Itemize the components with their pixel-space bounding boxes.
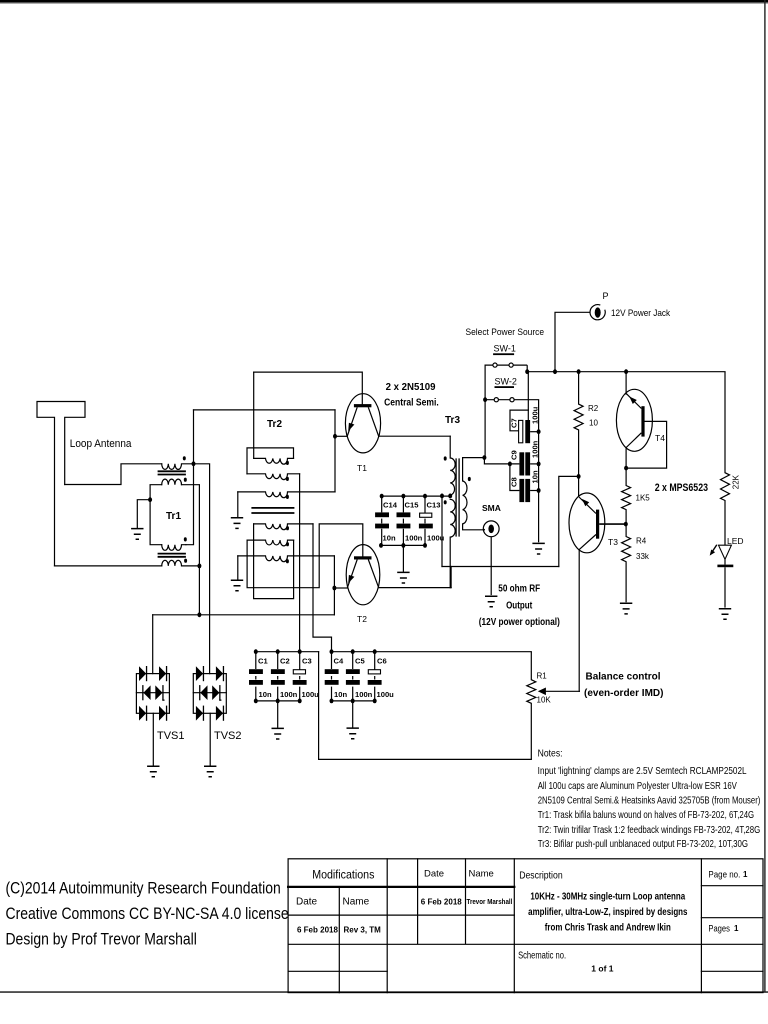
svg-text:22K: 22K (732, 474, 741, 489)
dot Tr2 W1 polarity (286, 461, 289, 465)
capacitor C1 (249, 652, 272, 701)
svg-text:2 x 2N5109: 2 x 2N5109 (386, 382, 436, 393)
junction dot rail T4 (624, 369, 628, 374)
svg-text:1: 1 (734, 924, 739, 933)
T3 emitter arrow (582, 499, 589, 506)
title block table (288, 859, 763, 993)
wire C4-C6 bottom rail (332, 700, 375, 702)
wire jack to power rail (555, 312, 590, 371)
T4 collector leg (626, 433, 641, 448)
wire W2/W4 node down to bottom rail (198, 566, 200, 615)
T4 emitter leg (626, 394, 641, 409)
wire C-block rail to Tr3 center (382, 495, 451, 497)
svg-text:12V Power Jack: 12V Power Jack (611, 308, 671, 318)
svg-text:100u: 100u (377, 690, 395, 699)
transistor T3 (rotated) (569, 493, 626, 691)
wire C2 ground tap (277, 701, 279, 727)
wire C7 feed box (510, 410, 528, 431)
svg-text:C4: C4 (334, 657, 344, 666)
R1 wiper arrow line (545, 690, 580, 692)
svg-text:T3: T3 (608, 537, 618, 547)
table thick header line (288, 886, 514, 888)
resistor R2 (574, 372, 583, 477)
wire R2 node to output line (559, 476, 579, 566)
capacitor C9 (horizontal) (484, 440, 539, 475)
junction dot T1 base (333, 434, 337, 439)
svg-text:SMA: SMA (482, 503, 501, 513)
wire W6 left down to ground (237, 556, 239, 579)
svg-text:Tr3: Tr3 (445, 415, 460, 426)
junction dot Tr3 C top / SW riser (482, 455, 486, 460)
ground C7/C9/C8 (532, 543, 544, 554)
svg-text:100n: 100n (280, 690, 298, 699)
T3 collector leg (579, 535, 596, 550)
svg-text:Tr2: Tr2 (267, 419, 282, 430)
dot Tr1 W1 polarity (183, 456, 186, 460)
junction dot T4 collector node (624, 466, 628, 471)
capacitor C7 (polarized, horizontal) (510, 406, 540, 443)
ground C2 (272, 728, 284, 739)
wire RF output line (442, 566, 559, 568)
TVS array TVS1 (136, 666, 169, 765)
wire Tr3 B bottom junction vertical (450, 567, 452, 588)
junction dot C5 top (351, 649, 355, 654)
capacitor C2 (271, 652, 298, 701)
wire top rail y=410 (194, 409, 336, 411)
transistor T1 (254, 372, 451, 453)
T2 emitter leg (347, 560, 357, 588)
T2 emitter arrow (348, 575, 354, 584)
TVS array TVS2 (193, 666, 226, 765)
capacitor C5 (346, 652, 373, 701)
junction dot C3 bottom (298, 699, 302, 704)
svg-text:10: 10 (589, 419, 598, 428)
svg-text:Loop Antenna: Loop Antenna (70, 438, 132, 451)
svg-text:(12V power optional): (12V power optional) (479, 616, 560, 627)
Tr2 winding W4 (humps down) (254, 524, 313, 530)
junction dot R2 bottom (577, 474, 581, 479)
ground LED (719, 609, 731, 620)
svg-text:C2: C2 (280, 657, 290, 666)
resistor 1K5 (622, 468, 631, 524)
dot Tr3 winding B polarity (444, 500, 447, 504)
junction dot T2 emitter (332, 586, 336, 591)
dot Tr3 winding A polarity (444, 456, 447, 460)
svg-text:Notes:: Notes: (538, 748, 563, 759)
junction dot C4 bottom (330, 699, 334, 704)
connector SMA (482, 503, 501, 595)
junction dot C14 bottom (379, 543, 383, 548)
loop antenna symbol (T outline) (37, 402, 85, 566)
Tr1 winding W2 (humps up) (162, 479, 182, 485)
wire C9 right lead (530, 463, 539, 465)
potentiometer R1 (527, 652, 580, 760)
dot Tr2 W2 polarity (286, 477, 289, 481)
T1 emitter arrow (348, 423, 354, 432)
transistor T2 (334, 545, 451, 605)
power jack P (590, 291, 608, 320)
wire node A up to top rail (193, 410, 195, 464)
wire R2 node down to T3 (578, 476, 580, 496)
junction dot C1 top (254, 649, 258, 654)
junction dot C7 right (537, 429, 541, 434)
T1 base bar (354, 404, 372, 407)
junction dot C9 left branch (508, 462, 512, 467)
svg-text:from Chris Trask and Andrew Ik: from Chris Trask and Andrew Ikin (545, 922, 671, 933)
junction dot C14 top (380, 494, 384, 499)
svg-text:6 Feb 2018: 6 Feb 2018 (421, 898, 462, 907)
transformer Tr1 (137, 464, 199, 566)
dot Tr2 W5 polarity (286, 542, 289, 546)
Tr2 winding W6 (humps down) (238, 556, 335, 562)
svg-text:C14: C14 (383, 501, 398, 510)
svg-text:100n: 100n (355, 690, 373, 699)
ground SMA output (485, 596, 497, 607)
svg-text:Design by Prof Trevor Marshall: Design by Prof Trevor Marshall (6, 931, 197, 949)
Tr2 winding W2 (humps down) (247, 474, 300, 480)
dot Tr3 winding C polarity (468, 477, 471, 481)
junction dot C2 bottom (276, 699, 280, 704)
R1 wiper arrowhead (538, 688, 546, 696)
T4 emitter arrow (629, 397, 637, 405)
junction dot Tr3 A/B center to C-rail (448, 494, 452, 499)
junction dot C-rail branch (440, 494, 444, 499)
junction dot C15 bottom (401, 543, 405, 548)
Tr3 winding A (vertical, humps right) (450, 436, 455, 495)
dot Tr1 W4 polarity (184, 559, 187, 563)
wire antenna upper lead to Tr1 W1 (65, 464, 162, 485)
wire W2-right long drop to C3 (299, 474, 301, 652)
Tr1 core lines upper (159, 471, 186, 474)
capacitor C3 (polarized) (293, 652, 319, 701)
svg-text:Central Semi.: Central Semi. (384, 397, 439, 409)
wire bottom rail y=615 (153, 614, 335, 616)
TVS1 mid-right diode (155, 685, 162, 700)
Tr1 box right vertical (node A) (186, 464, 194, 545)
Tr2 winding W3 (humps down) (238, 492, 335, 498)
svg-text:R1: R1 (537, 672, 548, 681)
wire rail drop to C7 (527, 372, 529, 421)
svg-text:10n: 10n (259, 690, 272, 699)
TVS1 top-right diode (159, 666, 166, 681)
junction dot T3 base node (624, 522, 628, 527)
T1 collector wire to Tr3 (379, 435, 451, 437)
svg-text:Tr2: Twin trifilar Trask 1:2 f: Tr2: Twin trifilar Trask 1:2 feedback wi… (538, 824, 761, 835)
Tr1 W2 left lead + box left vertical to W3 (150, 485, 162, 545)
TVS1 top-left diode (139, 666, 146, 681)
svg-text:2N5109 Central Semi.& Heatsink: 2N5109 Central Semi.& Heatsinks Aavid 32… (538, 794, 761, 805)
wire antenna lower lead to Tr1 W4 (55, 565, 162, 567)
svg-text:100n: 100n (405, 534, 423, 543)
svg-text:Pages: Pages (708, 923, 730, 934)
Tr1 winding W3 (humps down) (162, 545, 186, 551)
junction dot SW-2 left (483, 397, 487, 402)
resistor 22K (721, 372, 730, 546)
notes text block (538, 748, 761, 849)
svg-text:C1: C1 (258, 657, 268, 666)
T2 emitter wire (334, 587, 347, 589)
junction dot C13 top (423, 494, 427, 499)
svg-text:2 x MPS6523: 2 x MPS6523 (655, 482, 709, 494)
svg-text:33k: 33k (636, 552, 650, 561)
LED D1 (710, 536, 744, 608)
Tr1 W2 right lead (182, 485, 200, 566)
svg-text:10K: 10K (537, 696, 552, 705)
svg-text:Name: Name (343, 897, 370, 908)
junction dot C6 top (373, 649, 377, 654)
wire C8 left lead (510, 464, 520, 491)
junction dot C3 top (298, 649, 302, 654)
wire W4-right drop to C4 (313, 524, 332, 652)
svg-text:C8: C8 (510, 477, 519, 487)
T3 base wire (599, 523, 626, 525)
switch SW-2 (485, 377, 538, 543)
wire C14-bank bottom rail (381, 544, 425, 546)
svg-text:C5: C5 (355, 657, 365, 666)
svg-text:1K5: 1K5 (636, 494, 651, 503)
junction dot rail jack (553, 369, 557, 374)
ground TVS1 (147, 766, 159, 777)
transformer Tr2 (238, 372, 363, 652)
svg-text:Modifications: Modifications (312, 869, 375, 882)
svg-text:SW-1: SW-1 (494, 344, 516, 354)
wire C5 ground tap (352, 701, 354, 727)
wire power rail (527, 371, 725, 373)
capacitor C6 (polarized) (368, 652, 394, 701)
svg-text:6 Feb 2018: 6 Feb 2018 (297, 926, 338, 935)
svg-text:R4: R4 (636, 537, 647, 546)
T2 body ellipse (346, 545, 380, 605)
T1 collector leg (368, 407, 378, 436)
ground Tr2 W6 (231, 580, 243, 591)
T3 emitter leg (579, 497, 596, 514)
wire C1-C3 bottom rail (256, 700, 300, 702)
Tr1 winding W1 (top primary, humps down) (162, 464, 194, 470)
T2 base bar (354, 556, 372, 559)
T1 collector top feedback wire to Tr2 (254, 372, 363, 404)
wire C15 ground tap (402, 545, 404, 571)
svg-text:50 ohm RF: 50 ohm RF (498, 583, 540, 594)
svg-text:100u: 100u (427, 534, 445, 543)
dot Tr1 W3 polarity (184, 537, 187, 541)
junction dot rail R2 (577, 369, 581, 374)
Tr2 wrap W4-left to W5-right (254, 524, 294, 599)
transistor T4 (rotated) (616, 372, 666, 468)
resistor R4 (622, 524, 631, 602)
table vertical dividers (339, 859, 701, 993)
wire SMA ground lead (490, 537, 492, 595)
dot Tr2 W4 polarity (286, 526, 289, 530)
Tr2 winding W1 (humps down) (254, 458, 294, 464)
svg-text:Rev 3, TM: Rev 3, TM (344, 926, 382, 935)
svg-text:T1: T1 (357, 463, 367, 473)
svg-text:Output: Output (506, 600, 532, 611)
wire Tr3 C bottom to SMA (483, 529, 484, 530)
T4 base bar (641, 406, 644, 436)
TVS1 mid-left diode (points left) (143, 685, 150, 700)
wire C-rail branch down to output line (441, 496, 443, 567)
svg-text:T4: T4 (655, 433, 665, 443)
capacitor C8 (horizontal) (510, 464, 540, 502)
svg-text:TVS2: TVS2 (214, 730, 242, 742)
svg-text:100u: 100u (531, 406, 540, 424)
junction dot Tr1 ground tap (148, 497, 152, 502)
ground TVS2 (204, 766, 216, 777)
wire Tr2 W3-right up to T1 base (vertical) (334, 410, 336, 492)
junction dot W2/W4 node on bottom rail (197, 612, 201, 617)
T3 emitter/collector vertical wires (578, 550, 580, 692)
Tr2 wrap W1-right to W2-left (247, 448, 294, 474)
page border bottom (0, 991, 768, 993)
junction dot C15 top (401, 494, 405, 499)
svg-text:(even-order IMD): (even-order IMD) (584, 688, 663, 699)
junction node A dot (192, 461, 196, 466)
svg-text:C6: C6 (377, 657, 387, 666)
TVS1 bottom-right diode (159, 706, 166, 721)
table row lines (288, 886, 763, 972)
wire T1 feedback vertical into Tr2 W1 left (253, 372, 255, 458)
capacitor C15 (397, 496, 423, 545)
svg-text:100u: 100u (302, 690, 320, 699)
svg-text:Schematic no.: Schematic no. (518, 949, 566, 960)
Tr3 winding C (vertical, humps right) (463, 458, 485, 530)
wire W6-right down to T2 emitter node and bottom rail (333, 556, 335, 615)
T2 collector leg (368, 560, 378, 588)
ground Tr1 center tap (131, 529, 143, 540)
svg-text:10n: 10n (334, 690, 347, 699)
wire R1 bottom loop to C1-C3 rail (319, 652, 532, 760)
wire C7 right lead (530, 431, 539, 433)
Tr3 core lines (vertical) (456, 459, 459, 536)
wire W3 left down to ground (237, 492, 239, 517)
switch SW-1 (485, 344, 527, 372)
T4 base loop wire (626, 421, 667, 468)
ground R4 (620, 603, 632, 614)
junction dot W2/W4 node (197, 564, 201, 569)
LED arrow (712, 545, 717, 552)
page border top bar (0, 0, 768, 3)
wire C9 left lead from Tr3 (484, 458, 519, 464)
svg-text:Trevor Marshall: Trevor Marshall (467, 899, 513, 906)
svg-text:LED: LED (727, 536, 744, 546)
wire W5-left to T2 base feed (247, 524, 363, 588)
T4 collector wire down (625, 448, 627, 468)
svg-text:(C)2014 Autoimmunity Research: (C)2014 Autoimmunity Research Foundation (5, 880, 280, 898)
svg-text:All 100u caps are Aluminum Pol: All 100u caps are Aluminum Polyester Ult… (538, 780, 737, 791)
svg-text:Date: Date (296, 897, 318, 908)
page border right (764, 0, 765, 992)
junction dot rail SW (525, 369, 529, 374)
svg-text:Tr1: Tr1 (166, 511, 181, 522)
capacitor C13 (polarized) (419, 496, 445, 545)
svg-text:C15: C15 (405, 501, 420, 510)
junction dot C8 right (537, 488, 541, 493)
svg-text:C7: C7 (510, 418, 519, 428)
Tr3 winding C top lead (463, 457, 485, 459)
svg-text:10n: 10n (383, 534, 396, 543)
TVS1 bottom-left diode (139, 706, 146, 721)
junction dot C5 bottom (351, 699, 355, 704)
svg-text:10n: 10n (531, 470, 540, 483)
junction dot C1 bottom (254, 699, 258, 704)
svg-text:T2: T2 (357, 614, 367, 624)
svg-text:10KHz - 30MHz single-turn Loop: 10KHz - 30MHz single-turn Loop antenna (530, 891, 686, 902)
junction dot C13 bottom (423, 543, 427, 548)
junction dot C4 top (330, 649, 334, 654)
T1 emitter wire (335, 435, 347, 437)
dot Tr2 W3 polarity (286, 495, 289, 499)
table outer box (288, 859, 763, 993)
svg-text:SW-2: SW-2 (495, 377, 517, 387)
T1 emitter leg (347, 407, 357, 436)
wire C4-C6 top rail to R1 (332, 651, 532, 653)
copyright text block (5, 880, 288, 949)
Tr1 center-tap ground wire (137, 500, 150, 528)
svg-text:Select Power Source: Select Power Source (466, 327, 545, 338)
Tr2 core lines (252, 508, 293, 513)
svg-text:R2: R2 (588, 404, 599, 413)
dot Tr2 W6 polarity (286, 559, 289, 563)
ground C15 (397, 572, 409, 583)
Tr1 winding W4 (humps up) (162, 560, 200, 566)
svg-text:Tr3: Bifilar push-pull unblana: Tr3: Bifilar push-pull unblanaced output… (538, 838, 748, 849)
svg-text:Input 'lightning' clamps are 2: Input 'lightning' clamps are 2.5V Semtec… (538, 765, 747, 776)
svg-text:1: 1 (743, 870, 748, 879)
wire TVS1 riser (152, 615, 154, 674)
dot Tr1 W2 polarity (184, 478, 187, 482)
capacitor C14 (375, 496, 398, 545)
ground Tr2 W3 (231, 518, 243, 529)
ground C5 (347, 728, 359, 739)
transformer Tr3 (450, 436, 484, 587)
Tr2 winding W5 (humps down) (247, 540, 294, 546)
svg-text:C3: C3 (302, 657, 312, 666)
wire C1-C3 top rail (256, 651, 319, 653)
svg-text:TVS1: TVS1 (157, 730, 185, 742)
svg-text:amplifier, ultra-Low-Z, inspir: amplifier, ultra-Low-Z, inspired by desi… (528, 906, 687, 917)
svg-text:Creative Commons CC BY-NC-SA 4: Creative Commons CC BY-NC-SA 4.0 license (6, 905, 289, 923)
T2 collector wire (379, 587, 451, 589)
svg-text:Name: Name (469, 869, 494, 880)
svg-text:Date: Date (424, 869, 444, 880)
svg-text:C13: C13 (427, 501, 441, 510)
svg-text:Page no.: Page no. (708, 869, 740, 880)
T4 emitter wire from rail (625, 372, 627, 394)
wire node A right and down to TVS2 (194, 464, 210, 674)
junction dot C2 top (276, 649, 280, 654)
Tr3 winding B (vertical, humps right) (450, 499, 455, 587)
svg-text:C9: C9 (510, 450, 519, 460)
svg-text:Description: Description (519, 870, 562, 881)
junction dot C6 bottom (373, 699, 377, 704)
svg-text:P: P (603, 291, 609, 301)
wire SW left riser to Tr3 (483, 365, 486, 458)
Tr1 core lines lower (159, 554, 186, 557)
wire C8 right lead (530, 490, 539, 492)
svg-text:Tr1: Trask bifila baluns wound: Tr1: Trask bifila baluns wound on halves… (538, 809, 754, 820)
svg-text:1 of 1: 1 of 1 (591, 964, 613, 974)
junction dot C9 right (537, 462, 541, 467)
T3 base bar (596, 510, 599, 539)
T1 body ellipse (345, 394, 380, 453)
svg-text:Balance control: Balance control (586, 672, 661, 683)
svg-text:100n: 100n (531, 440, 540, 458)
capacitor C4 (325, 652, 348, 701)
